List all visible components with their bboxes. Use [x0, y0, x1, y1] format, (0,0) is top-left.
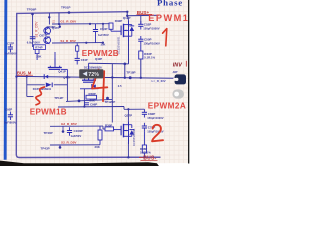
junction node top rail	[126, 11, 128, 13]
capacitor C67P	[30, 36, 36, 38]
wire R33P to phase	[140, 59, 142, 78]
svg-text:S1_R_D5V: S1_R_D5V	[60, 39, 76, 43]
svg-text:130pF/1000V: 130pF/1000V	[144, 42, 160, 46]
svg-text:TP18P: TP18P	[126, 71, 135, 75]
svg-text:C92P: C92P	[5, 107, 12, 111]
capacitor C64P	[75, 57, 80, 59]
svg-text:6.8uF/50V: 6.8uF/50V	[27, 40, 40, 44]
svg-text:150pF/1000V: 150pF/1000V	[147, 116, 163, 120]
wire to BUS+ and caps	[127, 14, 159, 17]
handwritten squiggle	[36, 87, 45, 105]
diode body Q42P	[93, 84, 96, 88]
svg-text:C64P: C64P	[81, 58, 88, 62]
wire drain feed	[126, 12, 128, 16]
svg-text:C100P: C100P	[74, 129, 83, 133]
svg-text:R32P: R32P	[115, 19, 123, 23]
resistor R39P	[98, 130, 102, 140]
svg-text:EPWM1B: EPWM1B	[30, 108, 67, 117]
svg-text:C82P: C82P	[148, 112, 156, 116]
wire column TP39P down	[32, 14, 34, 47]
resistor R38P	[86, 95, 97, 99]
wire caps column	[140, 16, 142, 25]
resistor small top-left	[76, 43, 78, 45]
wire stub below TP row	[111, 99, 113, 122]
svg-text:Phase: Phase	[157, 0, 183, 7]
wire stub at 103	[102, 24, 104, 31]
wire Q41P node down	[66, 77, 68, 102]
svg-text:EPWM2B: EPWM2B	[82, 49, 119, 58]
transistor Q47P	[44, 27, 51, 34]
svg-text:C50P: C50P	[144, 38, 152, 42]
wire Q42P drain up	[88, 63, 90, 80]
wire Q42P node down	[83, 89, 85, 107]
port INV outline tick	[185, 61, 187, 67]
svg-text:TP120P: TP120P	[104, 100, 115, 104]
wire BUS_M phase rail	[17, 76, 177, 78]
capacitor C96P	[84, 102, 89, 104]
svg-text:TP43P: TP43P	[41, 146, 50, 150]
test point TP120P	[106, 97, 109, 100]
wire M2 source to BUS-	[127, 142, 129, 157]
wire S1 net	[52, 42, 103, 44]
svg-text:EPWM1A: EPWM1A	[148, 13, 192, 23]
resistor R30P	[105, 127, 114, 131]
resistor R74P	[33, 45, 45, 50]
svg-text:R38P: R38P	[89, 92, 96, 96]
wire jog left	[89, 62, 129, 65]
capacitor C50P	[140, 36, 142, 39]
svg-text:S2_R_D5V: S2_R_D5V	[61, 141, 77, 145]
svg-text:5.1R.1%: 5.1R.1%	[140, 150, 151, 154]
svg-text:3uF/800V: 3uF/800V	[5, 51, 17, 55]
svg-text:G1_R_D5V: G1_R_D5V	[60, 19, 77, 23]
wire freewheel branch	[26, 77, 28, 97]
handwritten mark 4	[92, 70, 107, 102]
svg-text:150pF/1000V: 150pF/1000V	[143, 27, 159, 31]
wire phase drop mid	[111, 64, 113, 100]
capacitor C82P	[143, 109, 145, 112]
svg-text:5.1R.1%: 5.1R.1%	[144, 56, 155, 60]
wire Q41P gate drop	[61, 68, 67, 70]
transistor Q48P	[44, 37, 51, 44]
svg-text:C77P: C77P	[7, 42, 14, 46]
svg-text:DCZ55N65B30: DCZ55N65B30	[84, 65, 102, 69]
svg-text:C96P: C96P	[90, 103, 97, 107]
capacitor C100P	[69, 127, 71, 130]
handwritten mark 1	[163, 29, 167, 46]
capacitor C52P	[140, 21, 142, 24]
svg-text:INV: INV	[173, 62, 182, 68]
diode body Q41P	[45, 75, 48, 79]
svg-text:5uF/800V: 5uF/800V	[4, 120, 16, 124]
transistor Q42P mosfet	[82, 79, 96, 81]
handwritten mark 2	[152, 125, 163, 141]
wire M1 source drop	[128, 41, 130, 64]
svg-text:DCZ55N65B31: DCZ55N65B31	[132, 128, 136, 146]
svg-text:EPWM2A: EPWM2A	[148, 102, 186, 111]
connector J9P	[175, 74, 186, 84]
transistor Q12P mosfet	[120, 26, 122, 36]
wire M2 drain	[127, 109, 129, 124]
svg-text:72%: 72%	[88, 72, 99, 78]
mounting hole grey ring	[172, 89, 184, 98]
svg-text:TP39P: TP39P	[27, 8, 36, 12]
svg-text:S1_R_D5V: S1_R_D5V	[34, 21, 38, 38]
svg-text:Q17P: Q17P	[125, 114, 133, 118]
svg-text:BUS-: BUS-	[143, 156, 156, 162]
wire mid TP row	[66, 99, 112, 101]
wire S2 net	[50, 144, 100, 146]
svg-text:Q41P: Q41P	[63, 76, 71, 80]
svg-text:Q41P: Q41P	[58, 70, 66, 74]
svg-text:20K: 20K	[101, 42, 106, 46]
svg-text:2.5: 2.5	[118, 84, 122, 88]
wire TP51P drop	[58, 13, 60, 24]
wire left vertical rail	[16, 13, 19, 157]
resistor R36P	[143, 131, 145, 145]
svg-text:L=_R_INV: L=_R_INV	[152, 79, 166, 83]
test point TP51P	[68, 11, 71, 14]
wire mid bus	[58, 106, 124, 109]
svg-text:20K: 20K	[95, 145, 101, 149]
svg-text:J9P: J9P	[173, 70, 178, 74]
resistor R32P	[110, 22, 112, 25]
svg-text:G2_R_D5V: G2_R_D5V	[61, 122, 78, 126]
svg-text:TP12P: TP12P	[54, 96, 63, 100]
wire Q47P feed	[48, 13, 50, 25]
svg-text:20K: 20K	[36, 55, 42, 59]
svg-text:TP40P: TP40P	[44, 131, 53, 135]
transistor Q41P mosfet	[48, 67, 62, 69]
svg-text:Q47P: Q47P	[52, 26, 60, 30]
tooltip 72 percent	[79, 69, 103, 78]
svg-text:TP51P: TP51P	[61, 6, 70, 10]
wire bottom rail	[19, 156, 160, 158]
capacitor C77P	[9, 44, 11, 47]
svg-text:1uF/50V: 1uF/50V	[71, 134, 82, 138]
svg-text:R30P: R30P	[105, 123, 112, 127]
wire G1 gate net	[52, 23, 111, 25]
capacitor C79P	[143, 123, 145, 126]
svg-text:1uF/50V: 1uF/50V	[98, 33, 109, 37]
wire G2 net	[50, 125, 103, 127]
transistor Q17P mosfet	[114, 129, 121, 131]
diode D5P	[46, 83, 52, 88]
svg-text:R74P: R74P	[35, 45, 42, 49]
svg-text:C54P: C54P	[100, 27, 108, 31]
svg-text:Q12P: Q12P	[123, 16, 131, 20]
capacitor C92P	[9, 112, 11, 115]
wire top rail	[17, 12, 128, 14]
test point TP39P	[31, 13, 34, 16]
capacitor C54P	[95, 24, 97, 30]
resistor R33P	[140, 44, 142, 51]
